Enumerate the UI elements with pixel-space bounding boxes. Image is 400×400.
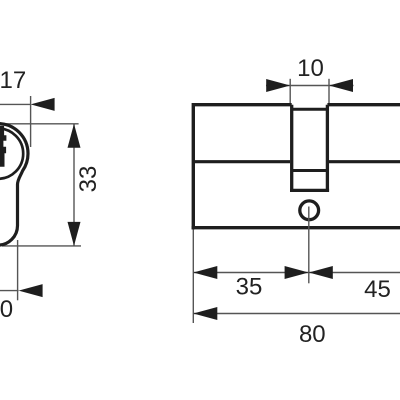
dim 35 right arrow [285,266,309,279]
cam slot bottom line [290,189,329,192]
cam slot right wall [326,105,329,191]
body outline top edge left segment [193,103,291,106]
dim 10 line [266,85,354,87]
dim 45 left arrow [309,266,333,279]
cam slot left wall [290,105,293,191]
svg-text:10: 10 [0,296,13,323]
dim 80 arrow [193,307,217,320]
dim 35 left arrow [193,266,217,279]
dim 17 extension line [30,96,32,147]
extension line bottom of 33 dim [2,245,81,247]
dim 80 line [193,313,400,315]
extension line top of 33 dim [2,123,79,125]
dim 17 line [0,103,31,105]
cam slot mid line [292,169,328,172]
body outline top edge right segment [327,103,400,106]
body outline bottom edge [192,226,400,229]
svg-text:35: 35 [236,273,263,300]
plug parting line right segment [329,160,400,163]
dim 33 line [73,124,75,246]
dim 17 arrow [31,98,55,111]
dim 10 right extension line [328,79,330,103]
cylinder plug inner circle [0,128,23,178]
left extension line for 35 and 80 dims [192,230,194,324]
centre line [308,207,310,284]
dim 10 left extension line [289,79,291,103]
svg-text:10: 10 [297,55,324,82]
body outline left edge [192,103,195,229]
svg-text:33: 33 [75,166,102,193]
dim 35-45 line [193,272,400,274]
cylinder profile outer outline [0,124,28,246]
dim 10 right arrow [329,79,353,92]
cam slot inner top line [292,108,328,111]
svg-text:17: 17 [0,67,26,94]
keyway silhouette [0,126,6,167]
plug parting line left segment [193,160,290,163]
dim 10 left arrow [266,79,290,92]
svg-text:80: 80 [299,321,326,348]
dim 10 extension line [17,240,19,300]
fixing screw hole [300,201,319,220]
svg-text:45: 45 [364,276,391,303]
dim 10 (bottom-left, cropped) line [0,290,19,292]
dim 10 arrow [19,284,43,297]
dim 33 arrow up [68,124,81,148]
dim 33 arrow down [68,222,81,246]
